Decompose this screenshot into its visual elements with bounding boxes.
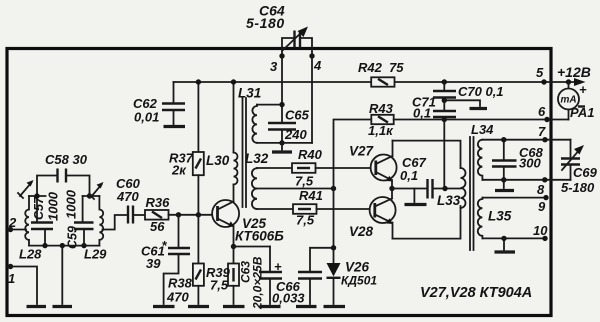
collector wire V25 (233, 185, 235, 202)
inductor L35 (478, 198, 512, 239)
resistor R36 56 (145, 195, 170, 234)
ground (mid node) (413, 189, 415, 203)
svg-text:V27,V28 КТ904А: V27,V28 КТ904А (420, 285, 532, 301)
wire C60 to R36 (133, 214, 145, 216)
svg-text:10: 10 (533, 223, 548, 238)
wire L29 to C60 (103, 215, 128, 230)
resistor R42 75 (358, 60, 404, 87)
inductor L30 (206, 79, 238, 184)
V28 collector to mid node (391, 189, 393, 199)
wire tank to ground (61, 246, 63, 304)
svg-text:L33: L33 (437, 193, 461, 208)
wire 6 branch down to C67 node (443, 120, 445, 189)
transistor V28 КТ904А (349, 197, 396, 239)
inductor L29 (84, 196, 107, 262)
svg-text:+: + (274, 259, 282, 274)
wire 10 (L35 bottom to pin 10) (482, 237, 545, 239)
svg-text:5-180: 5-180 (561, 180, 595, 195)
diode V26 КД501 (327, 189, 378, 305)
capacitor C57 1000 (31, 191, 61, 245)
svg-text:470: 470 (116, 189, 139, 204)
svg-text:6: 6 (538, 104, 546, 119)
svg-text:470: 470 (166, 290, 189, 305)
emitter wire V25 (233, 226, 235, 247)
svg-text:R43: R43 (369, 101, 394, 116)
inductor L34 (471, 122, 494, 180)
capacitor C58 30 (bridge) (34, 152, 92, 199)
pin 9 (538, 195, 549, 214)
+12V arrow (557, 64, 591, 97)
pin 5 (536, 65, 547, 85)
svg-text:L35: L35 (488, 209, 512, 224)
push-pull bottom wire to L33 (393, 206, 461, 239)
left tank top rail (29, 195, 46, 197)
base wire R36 to V25 (169, 214, 218, 216)
svg-text:7,5: 7,5 (295, 174, 314, 189)
ground (C70/C71) (470, 107, 488, 110)
node 4 (309, 53, 322, 73)
wire 6 (R43 to border pin 6) (394, 119, 569, 121)
resistor R37 2к (169, 79, 204, 215)
svg-text:+12В: +12В (557, 64, 591, 80)
svg-text:+: + (579, 82, 587, 97)
svg-text:С59: С59 (66, 226, 80, 249)
svg-text:300: 300 (519, 156, 541, 171)
wire 7 (L34 top to pin 7) (482, 139, 570, 141)
shield frame (border box) (7, 49, 551, 316)
svg-text:С58 30: С58 30 (45, 152, 88, 167)
tuning arrow L29 (89, 182, 104, 199)
svg-text:R41: R41 (299, 188, 323, 203)
svg-text:2к: 2к (171, 163, 187, 178)
transistor V25 КТ606Б (212, 200, 284, 244)
resistor R43 1,1к (334, 101, 395, 189)
svg-text:20,0×25В: 20,0×25В (251, 256, 265, 310)
ground (V26) (324, 305, 346, 308)
tuning arrow L28 (18, 180, 34, 198)
svg-text:L30: L30 (206, 153, 230, 168)
resistor R40 7,5 (292, 147, 323, 189)
svg-text:1000: 1000 (46, 191, 61, 221)
svg-text:240: 240 (284, 127, 307, 142)
svg-text:R38: R38 (168, 276, 193, 291)
capacitor C70 0,1 (433, 79, 504, 103)
mid node wire to C67 (392, 188, 427, 190)
wire R40 to V27 base (316, 167, 376, 169)
capacitor C69 (variable 5-180) (561, 140, 598, 195)
wire L32 center tap (257, 188, 334, 190)
pin 8 (537, 177, 548, 197)
input terminal 2 (8, 215, 17, 232)
transformer core L33/L34/L35 (470, 137, 474, 250)
wire C70/C71 midpoint to ground (444, 100, 480, 106)
svg-text:3: 3 (270, 59, 278, 74)
milliammeter PA1 (558, 79, 594, 120)
svg-text:L29: L29 (84, 247, 107, 262)
transformer core L30/L31/L32 (243, 98, 247, 207)
ground (C68) (503, 180, 505, 188)
pin 6 (538, 104, 550, 122)
svg-text:1,1к: 1,1к (368, 123, 394, 138)
svg-text:С70 0,1: С70 0,1 (458, 84, 504, 99)
V27 emitter to mid node (391, 180, 393, 189)
capacitor C66 0,033 (272, 248, 334, 306)
svg-text:39: 39 (146, 256, 161, 271)
capacitor C64 (variable, 5-180) (246, 3, 312, 57)
ground (C66) (296, 305, 317, 308)
wire L32 top tap to R40 (257, 167, 292, 169)
right tank top rail (83, 195, 100, 197)
svg-text:V26: V26 (345, 260, 370, 275)
wire L32 bottom tap to R41 (257, 208, 293, 210)
svg-text:R42 75: R42 75 (358, 60, 404, 75)
svg-text:7,5: 7,5 (296, 213, 315, 228)
capacitor C65 240 (268, 102, 310, 146)
wire R41 to V28 base (317, 208, 375, 210)
ground (R39) (223, 305, 245, 308)
ground (L31 tank) (272, 150, 292, 153)
node 3 (270, 53, 285, 74)
svg-text:0,1: 0,1 (400, 168, 418, 183)
svg-text:R36: R36 (146, 195, 171, 210)
pin 7 (538, 124, 548, 142)
ground (R38) (188, 305, 209, 308)
V28 emitter wire (392, 223, 394, 239)
resistor R38 470 (166, 215, 204, 305)
svg-text:7,5: 7,5 (210, 278, 229, 293)
svg-text:5-180: 5-180 (246, 15, 285, 31)
svg-text:56: 56 (150, 219, 165, 234)
tank bottom rail to node 4 (257, 142, 312, 144)
svg-text:L32: L32 (245, 151, 269, 166)
capacitor C63 20,0x25В (electrolytic) (234, 247, 283, 311)
capacitor C59 1000 (64, 189, 94, 249)
input terminal 1 (8, 264, 15, 286)
wire terminal 2 to L28 (8, 229, 26, 231)
svg-text:0,033: 0,033 (272, 291, 305, 306)
svg-text:L34: L34 (471, 122, 494, 137)
inductor L28 (19, 196, 42, 262)
capacitor C68 300 (492, 137, 544, 183)
ground (terminal 1) (27, 305, 47, 308)
svg-text:РА1: РА1 (570, 105, 594, 120)
capacitor C71 0,1 (412, 95, 456, 123)
svg-text:9: 9 (538, 199, 546, 214)
ground (L35) (495, 236, 516, 252)
ground (C61) (153, 305, 175, 308)
transistor V27 КТ904А (349, 144, 397, 182)
svg-text:R40: R40 (298, 147, 323, 162)
resistor R41 7,5 (293, 188, 323, 228)
wire tank bottom to ground (281, 143, 283, 150)
wire node 3 to L31 tank top (281, 56, 283, 105)
svg-text:5: 5 (536, 65, 544, 80)
svg-text:L28: L28 (19, 247, 42, 262)
wire C67 to L33 tap (433, 188, 461, 190)
V27 collector wire (392, 141, 394, 156)
pin 10 (533, 223, 548, 241)
svg-text:mA: mA (561, 95, 577, 106)
svg-text:8: 8 (537, 182, 545, 197)
ground (C63) (260, 305, 281, 308)
capacitor C60 470 (116, 176, 141, 224)
svg-text:КТ606Б: КТ606Б (235, 229, 284, 244)
wire 9 (L35 top to pin 9) (482, 197, 546, 199)
svg-text:1: 1 (8, 271, 15, 286)
svg-text:V27: V27 (349, 144, 375, 159)
inductor L33 (437, 168, 466, 208)
push-pull top wire to L33 (393, 141, 461, 168)
svg-text:4: 4 (313, 58, 322, 73)
capacitor C62 0,01 (133, 82, 185, 125)
svg-text:2: 2 (8, 215, 17, 230)
svg-text:7: 7 (538, 124, 546, 139)
junction dots bottom rail (42, 243, 47, 248)
inductor L31 (238, 86, 282, 143)
svg-text:С69: С69 (573, 165, 598, 180)
svg-text:0,1: 0,1 (413, 106, 431, 121)
svg-text:0,01: 0,01 (134, 110, 159, 125)
tank bottom rail (29, 245, 99, 247)
svg-text:L31: L31 (238, 86, 261, 101)
inductor L32 (245, 151, 269, 209)
capacitor C67 0,1 (400, 155, 433, 199)
ground (C62) (164, 125, 186, 128)
supply rail wire (pin 5 rail) (174, 81, 577, 83)
capacitor C61* 39 (141, 215, 190, 304)
ground (input tank) (53, 305, 73, 308)
svg-text:1000: 1000 (64, 189, 79, 219)
wire 8 (L34 bottom to pin 8) (482, 179, 570, 181)
resistor R39 7,5 (206, 247, 239, 305)
svg-text:С65: С65 (285, 108, 310, 123)
svg-text:V28: V28 (349, 224, 374, 239)
wire terminal 1 to ground (8, 267, 37, 305)
wire node 4 down to tank bottom rail (311, 56, 313, 143)
svg-text:С57: С57 (32, 196, 46, 220)
svg-text:КД501: КД501 (341, 274, 377, 288)
